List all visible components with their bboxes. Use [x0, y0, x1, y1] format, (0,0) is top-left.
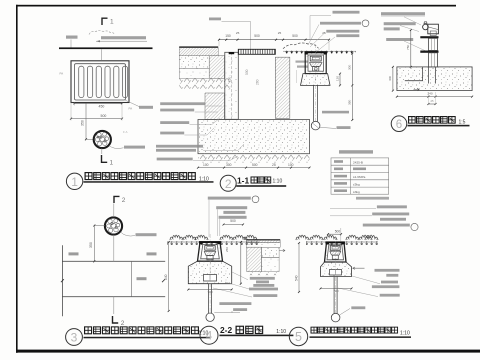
svg-text:1: 1	[110, 19, 114, 26]
svg-text:350: 350	[81, 120, 85, 126]
lower hatched wall (left)	[205, 93, 225, 120]
border left	[16, 5, 18, 353]
annotation stack	[377, 205, 407, 208]
planting mound dashed	[283, 43, 319, 49]
lower leader	[351, 306, 365, 309]
svg-text:1: 1	[71, 175, 78, 189]
right leader text stack	[375, 269, 400, 272]
svg-text:3: 3	[71, 331, 78, 345]
svg-text:1: 1	[110, 160, 114, 167]
intake box (section 1-1)	[301, 44, 331, 130]
section cut line 1-1	[100, 49, 102, 60]
right side dims of box	[240, 242, 242, 284]
svg-text:1:10: 1:10	[400, 330, 410, 336]
title 2 : 1-1 section	[220, 175, 236, 191]
dashed shrub outline	[89, 31, 115, 35]
svg-text:2425-B: 2425-B	[353, 161, 363, 165]
kerb haunch concrete	[209, 56, 224, 79]
kerb stone	[225, 52, 239, 119]
svg-text:540: 540	[295, 275, 299, 281]
concrete anchor block	[397, 67, 472, 91]
intake box (2-2)	[198, 242, 223, 261]
leader above section	[209, 18, 221, 21]
riser pipe	[333, 277, 335, 314]
svg-text:25: 25	[278, 31, 282, 35]
flange 2	[420, 51, 438, 53]
svg-text:4: 4	[206, 329, 213, 343]
svg-text:2-2: 2-2	[220, 325, 232, 335]
intake device circle (plan)	[94, 131, 111, 148]
top dim line	[219, 39, 329, 41]
bottom dim	[321, 288, 352, 290]
faucet detail	[420, 22, 438, 67]
border bottom	[16, 350, 480, 353]
svg-text:700: 700	[207, 290, 212, 294]
svg-text:500: 500	[252, 163, 258, 167]
foundation slab	[198, 120, 310, 154]
svg-text:5: 5	[295, 330, 302, 344]
intake box (green)	[325, 242, 347, 262]
grate outer rect	[71, 61, 129, 103]
path label	[137, 277, 147, 280]
grate slats	[79, 66, 84, 97]
tiny annotations right of wall	[296, 61, 311, 63]
svg-text:400: 400	[388, 76, 392, 81]
leader from elbow	[320, 127, 336, 128]
svg-text:500: 500	[335, 230, 341, 234]
svg-text:150: 150	[225, 34, 231, 38]
vertical dim 350 grate to intake	[85, 103, 87, 139]
svg-text:2: 2	[122, 197, 126, 204]
soil chevron band below pavement	[179, 78, 230, 88]
svg-text:500: 500	[245, 69, 249, 75]
title 6 : detail 1:5	[391, 116, 407, 132]
leader to grate label	[125, 100, 140, 107]
dim to path edge	[94, 225, 105, 227]
svg-text:1:10: 1:10	[273, 179, 283, 185]
note below table	[356, 197, 389, 200]
svg-text:2: 2	[121, 320, 125, 327]
svg-text:1:5: 1:5	[459, 120, 466, 126]
lower leader texts	[219, 302, 251, 305]
section mark L-2	[113, 316, 119, 323]
grass tufts	[296, 235, 309, 240]
grate inner rect	[75, 64, 126, 100]
table title	[339, 150, 373, 153]
dim 500	[71, 118, 122, 120]
supply elbow circle	[311, 121, 320, 130]
vertical dims left of faucet	[410, 30, 412, 67]
leader from circle	[121, 232, 136, 236]
left depth dim	[298, 243, 300, 292]
svg-text:FA: FA	[129, 107, 133, 111]
title 1: plan (rain inlet side)	[66, 173, 82, 189]
dim 450	[75, 102, 123, 104]
svg-text:≤1.6MPa: ≤1.6MPa	[353, 175, 366, 179]
plinth block	[188, 261, 231, 284]
table cells	[334, 160, 343, 163]
ground dot row	[306, 241, 378, 243]
svg-text:100: 100	[203, 163, 209, 167]
svg-text:F A: F A	[123, 130, 128, 134]
left annotation stack	[160, 102, 205, 105]
border top	[16, 5, 456, 7]
svg-text:500: 500	[254, 34, 260, 38]
road edge line	[59, 47, 153, 49]
svg-text:6: 6	[396, 119, 402, 131]
elbow step inside block	[405, 67, 423, 81]
svg-text:FA: FA	[60, 72, 64, 76]
svg-text:500: 500	[292, 34, 298, 38]
svg-text:25: 25	[236, 31, 240, 35]
right pavement block	[246, 239, 280, 240]
annotation texts top-right	[381, 12, 425, 15]
garden path edges	[62, 260, 165, 262]
svg-text:120: 120	[228, 77, 232, 82]
title 4 : 2-2 section	[200, 326, 218, 344]
section mark gamma-1	[102, 18, 108, 25]
pavement layers left	[179, 46, 218, 47]
soil band under slab	[198, 154, 310, 163]
leader from intake circle	[109, 146, 124, 149]
svg-text:300: 300	[226, 163, 232, 167]
ground dot row right	[283, 50, 356, 52]
annotation stack above	[208, 197, 251, 200]
svg-text:25: 25	[272, 163, 276, 167]
section mark gamma-2	[114, 196, 120, 203]
svg-text:260: 260	[256, 79, 260, 85]
svg-text:750: 750	[406, 45, 410, 50]
svg-text:840: 840	[164, 274, 168, 280]
section cut line 2-2	[113, 204, 115, 218]
bottom dim	[188, 289, 231, 291]
pipe passing through block	[427, 67, 429, 84]
left depth dim	[168, 242, 170, 311]
svg-text:25: 25	[431, 99, 434, 103]
leader text stack below	[250, 277, 275, 280]
flange 1	[420, 36, 438, 38]
title 3 : plan (garden path side)	[66, 329, 83, 346]
svg-text:350: 350	[348, 100, 352, 105]
svg-text:≤3kg: ≤3kg	[353, 190, 360, 194]
section mark L-1	[102, 155, 108, 162]
leader arrow right	[279, 249, 285, 251]
svg-text:1:10: 1:10	[276, 329, 286, 335]
grass tufts	[170, 235, 183, 240]
pipe column lower	[428, 53, 437, 67]
svg-text:120: 120	[336, 76, 340, 81]
ground dot row	[167, 241, 259, 243]
pipe label DN-200	[101, 36, 146, 39]
table frame	[331, 158, 389, 194]
title 5 : green area section	[289, 327, 307, 345]
pipe column upper	[428, 38, 437, 50]
intake device circle (plan 2)	[105, 217, 122, 234]
dims right of box	[339, 74, 341, 86]
svg-text:350: 350	[89, 242, 93, 248]
block dims	[392, 67, 394, 91]
spot elevation text	[66, 36, 78, 39]
svg-text:500: 500	[101, 114, 107, 118]
riser pipe	[313, 85, 315, 121]
grate over shaft (section)	[238, 49, 275, 54]
plinth block	[321, 262, 352, 277]
svg-text:100: 100	[288, 163, 294, 167]
svg-text:250: 250	[225, 247, 229, 252]
svg-text:1-1: 1-1	[237, 176, 249, 186]
svg-text:450: 450	[99, 105, 105, 109]
svg-text:700: 700	[333, 289, 338, 293]
svg-text:≤5kg: ≤5kg	[353, 183, 360, 187]
kerb labels	[69, 252, 79, 255]
svg-text:300: 300	[348, 65, 352, 70]
annotations above right section	[333, 11, 360, 14]
bottom dim	[198, 167, 310, 169]
svg-text:500: 500	[230, 219, 236, 223]
svg-text:2: 2	[225, 177, 232, 191]
riser pipe	[208, 284, 210, 313]
leader arrow into plinth	[353, 267, 365, 269]
box support plinth	[301, 74, 331, 86]
right wall of inlet	[275, 57, 290, 118]
